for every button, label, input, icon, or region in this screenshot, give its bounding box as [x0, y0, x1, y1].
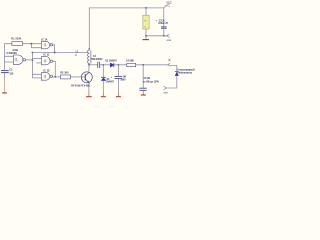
wire left-gate inputs from rail — [5, 56, 14, 62]
wire below yellow resistor — [145, 29, 147, 39]
svg-text:D1: D1 — [107, 79, 111, 81]
svg-text:100uF 25: 100uF 25 — [158, 23, 168, 25]
wire R1 left + left rail down to C2 — [5, 44, 12, 70]
wire gate A output down to phase line — [53, 45, 55, 53]
ground arrow (bottom right) — [163, 86, 167, 90]
capacitor C4a plates (series) — [98, 62, 100, 68]
wire top rail — [89, 8, 164, 50]
svg-text:(74HC08): (74HC08) — [6, 52, 16, 55]
wire stabilizer top link — [170, 65, 177, 71]
capacitor C2 — [1, 71, 9, 73]
wire R5 drop from rail — [145, 8, 147, 15]
capacitor C5b plates — [139, 88, 146, 90]
wire R1 branch to gate A lower input — [31, 44, 41, 48]
gate U1D — [41, 73, 52, 81]
svg-text:+: + — [156, 20, 158, 23]
terminal red bar (below R5) — [143, 39, 150, 41]
spark gap contact mark — [168, 59, 170, 62]
capacitor C5a plates — [115, 77, 123, 79]
wire C5a drop — [117, 65, 119, 77]
svg-text:1N4007: 1N4007 — [106, 81, 115, 84]
resistor R2 — [61, 75, 71, 79]
svg-text:5M: 5M — [123, 77, 126, 79]
svg-text:R1 250K: R1 250K — [11, 36, 21, 40]
wire gate output bus B/C — [53, 61, 56, 77]
wire R2 to base — [70, 76, 85, 78]
svg-text:160V: 160V — [120, 80, 126, 82]
svg-text:150: 150 — [9, 73, 14, 75]
wire D1 drop — [102, 65, 104, 77]
svg-text:+: + — [111, 76, 113, 79]
wire emitter down — [88, 83, 90, 91]
wire collector up to mid node — [88, 65, 90, 72]
wire phase line to L1 — [32, 52, 87, 54]
wire C5b drop — [142, 65, 144, 88]
svg-text:D2 1N4007: D2 1N4007 — [105, 59, 117, 62]
svg-text:IC1B: IC1B — [13, 50, 19, 52]
wire stub to gate B upper input — [32, 57, 41, 59]
inductor L1 winding — [88, 50, 91, 65]
wire left-gate output to junction column — [26, 59, 33, 61]
wire stabilizer bottom to ground — [167, 76, 177, 88]
wire C5b to bottom terminal — [142, 90, 144, 91]
terminal D1 red pin — [101, 93, 106, 97]
wire C3 bottom — [163, 29, 165, 36]
svg-text:C2: C2 — [9, 69, 13, 71]
wire stub gate B lower input — [36, 62, 41, 64]
wire junction column x=32.4 — [31, 53, 33, 79]
svg-text:GND: GND — [163, 93, 168, 95]
wire branch to GND (top right) — [146, 35, 166, 37]
wire color groups — [5, 6, 177, 93]
wire C2 bottom stub — [4, 73, 6, 78]
resistor R1 — [12, 42, 23, 46]
svg-text:Газоразрядный: Газоразрядный — [177, 68, 195, 71]
wire R1 right to gate A input — [23, 43, 42, 45]
svg-text:BF459(4TX4B): BF459(4TX4B) — [71, 85, 90, 88]
terminal C2 red pin — [2, 78, 7, 93]
wire mid output line — [89, 64, 98, 66]
svg-text:VCC: VCC — [166, 1, 171, 4]
resistor R5 (yellow highlighted) — [143, 15, 149, 29]
terminal emitter red pin — [86, 91, 92, 97]
diode D1 — [101, 77, 106, 80]
svg-text:56N 2000V: 56N 2000V — [91, 59, 103, 61]
junction dots — [31, 7, 165, 78]
gate U1A — [41, 41, 52, 48]
gate U1B (left AND gate) — [13, 55, 25, 64]
svg-text:C4 5N8: C4 5N8 — [126, 60, 134, 63]
capacitor C3 plates — [161, 27, 167, 29]
transistor Q1 — [81, 72, 92, 83]
svg-text:C4: C4 — [93, 55, 97, 58]
wire C5a to bottom terminal — [117, 79, 119, 93]
VCC power symbol — [166, 4, 171, 7]
svg-text:1Г: 1Г — [75, 55, 78, 57]
svg-text:IC 1A: IC 1A — [42, 38, 48, 41]
terminal C5a red pin — [116, 93, 121, 97]
zener stabilizer diode — [175, 71, 179, 75]
terminal C5b red pin — [141, 92, 146, 96]
svg-text:GND: GND — [166, 40, 171, 42]
wire VCC tap diagonal — [164, 6, 166, 8]
svg-text:xx НФ до 100V: xx НФ до 100V — [143, 81, 159, 84]
svg-text:стабилизатор: стабилизатор — [177, 72, 193, 75]
wire end fork (right) — [167, 63, 170, 66]
diode D2 — [110, 63, 114, 67]
wire D1 to bottom terminal — [102, 81, 104, 93]
svg-text:R2 360: R2 360 — [60, 71, 69, 75]
ground arrow (top right) — [166, 34, 170, 38]
wire C3 top — [163, 8, 165, 27]
svg-text:C5 2B: C5 2B — [144, 78, 151, 80]
wire gate C output to R2 — [53, 76, 61, 78]
gate U1C — [41, 57, 52, 65]
wire stubs to gate C inputs — [32, 74, 41, 78]
fuse/cap C4b box — [127, 63, 136, 66]
